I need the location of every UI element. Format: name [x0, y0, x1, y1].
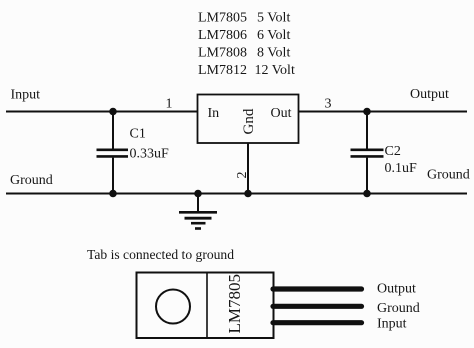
svg-text:3: 3	[325, 97, 332, 112]
svg-text:1: 1	[166, 97, 173, 112]
svg-text:Ground: Ground	[427, 168, 470, 183]
svg-text:Input: Input	[11, 88, 41, 103]
svg-text:6 Volt: 6 Volt	[257, 28, 290, 43]
svg-text:Input: Input	[377, 317, 407, 332]
svg-text:0.1uF: 0.1uF	[385, 161, 418, 176]
svg-text:LM7812: LM7812	[198, 63, 247, 78]
svg-text:Ground: Ground	[10, 173, 53, 188]
svg-text:LM7805: LM7805	[225, 274, 244, 334]
svg-text:Output: Output	[377, 282, 416, 297]
svg-text:Out: Out	[271, 106, 292, 121]
svg-text:0.33uF: 0.33uF	[130, 147, 170, 162]
svg-text:C1: C1	[130, 127, 146, 142]
svg-text:LM7805: LM7805	[198, 11, 247, 26]
svg-text:12 Volt: 12 Volt	[255, 63, 295, 78]
svg-text:8 Volt: 8 Volt	[257, 46, 290, 61]
svg-text:C2: C2	[385, 144, 401, 159]
svg-text:Ground: Ground	[377, 301, 420, 316]
svg-text:In: In	[208, 106, 220, 121]
svg-text:LM7806: LM7806	[198, 28, 247, 43]
svg-text:Output: Output	[410, 87, 449, 102]
svg-text:5 Volt: 5 Volt	[257, 11, 290, 26]
svg-text:Gnd: Gnd	[241, 108, 257, 134]
svg-text:Tab is connected to ground: Tab is connected to ground	[87, 247, 234, 262]
svg-text:LM7808: LM7808	[198, 46, 247, 61]
